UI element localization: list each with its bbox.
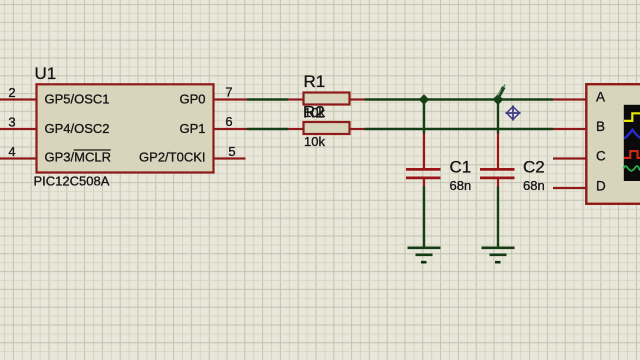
scope pin B wire xyxy=(553,128,586,130)
wire U1 pin6 to R2 xyxy=(247,128,288,130)
svg-text:GP1: GP1 xyxy=(179,121,205,136)
svg-text:R1: R1 xyxy=(304,72,326,91)
oscilloscope body xyxy=(586,84,640,204)
wire net GP0: R1 to scope A xyxy=(365,98,554,100)
IC U1 body xyxy=(37,84,214,172)
scope pin A wire xyxy=(553,98,586,100)
wire U1 pin7 to R1 xyxy=(247,98,288,100)
U1 pin 3 wire (GP4/OSC2) xyxy=(0,128,36,130)
svg-text:C1: C1 xyxy=(450,158,472,177)
scope pin D wire xyxy=(553,187,586,189)
svg-text:68n: 68n xyxy=(523,178,545,193)
resistor R1 right pin xyxy=(350,98,365,100)
svg-text:B: B xyxy=(596,119,605,134)
capacitor C2 top pin xyxy=(497,134,499,169)
svg-text:4: 4 xyxy=(8,144,15,159)
junction dot at R1 net / C2 xyxy=(493,94,504,105)
svg-text:7: 7 xyxy=(225,85,232,100)
svg-text:D: D xyxy=(596,179,606,194)
resistor R1 left pin xyxy=(288,98,304,100)
svg-text:3: 3 xyxy=(8,115,15,130)
U1 pin 4 wire (GP3/MCLR) xyxy=(0,157,36,159)
capacitor C1 plates xyxy=(406,169,441,178)
U1 pin 6 wire (GP1) xyxy=(214,128,248,130)
svg-text:10k: 10k xyxy=(304,134,325,149)
scope trace channel A (yellow square wave) xyxy=(624,113,640,121)
U1 pin 2 wire (GP5/OSC1) xyxy=(0,98,36,100)
wire vertical C2 to ground xyxy=(497,187,499,248)
U1 pin 5 stub (GP2/T0CKI, unconnected) xyxy=(214,157,246,159)
ground symbol under C2 xyxy=(482,248,515,262)
svg-text:GP3/MCLR: GP3/MCLR xyxy=(45,150,111,165)
capacitor C2 bottom pin xyxy=(497,179,499,187)
capacitor C1 bottom pin xyxy=(423,179,425,187)
svg-text:68n: 68n xyxy=(450,178,472,193)
selection crosshair cursor xyxy=(505,105,520,120)
U1 pin 7 wire (GP0) xyxy=(214,98,248,100)
svg-text:5: 5 xyxy=(228,144,235,159)
scope trace channel C (red square wave) xyxy=(624,151,640,158)
junction dot at R1 net / C1 xyxy=(419,94,429,104)
resistor R2 right pin xyxy=(350,128,365,130)
svg-text:2: 2 xyxy=(8,85,15,100)
wire net GP1: R2 to scope B xyxy=(365,128,554,130)
wire-drawing pencil cursor at junction xyxy=(498,85,506,99)
oscilloscope screen xyxy=(624,105,640,181)
svg-text:GP0: GP0 xyxy=(179,92,205,107)
svg-text:C2: C2 xyxy=(523,158,545,177)
wire vertical to C2 xyxy=(497,100,499,134)
svg-text:6: 6 xyxy=(225,114,232,129)
svg-text:PIC12C508A: PIC12C508A xyxy=(34,174,110,189)
scope pin C wire xyxy=(553,157,586,159)
wire vertical to C1 xyxy=(423,100,425,134)
ground symbol under C1 xyxy=(408,248,441,262)
scope trace channel B (blue sine wave) xyxy=(624,130,640,139)
svg-text:GP2/T0CKI: GP2/T0CKI xyxy=(139,150,205,165)
resistor R1 body xyxy=(304,93,350,105)
svg-text:U1: U1 xyxy=(35,64,57,83)
resistor R2 body xyxy=(304,122,350,134)
U1 pin name GP3/MCLR xyxy=(45,150,111,165)
svg-text:GP4/OSC2: GP4/OSC2 xyxy=(45,121,110,136)
svg-text:C: C xyxy=(596,149,606,164)
capacitor C2 plates xyxy=(480,169,515,178)
capacitor C1 top pin xyxy=(423,134,425,169)
svg-text:GP5/OSC1: GP5/OSC1 xyxy=(45,92,110,107)
resistor R2 left pin xyxy=(288,128,304,130)
svg-text:A: A xyxy=(596,90,605,105)
scope trace channel D (green sine wave) xyxy=(624,166,640,171)
wire vertical C1 to ground xyxy=(423,187,425,248)
svg-text:R2: R2 xyxy=(303,103,325,122)
